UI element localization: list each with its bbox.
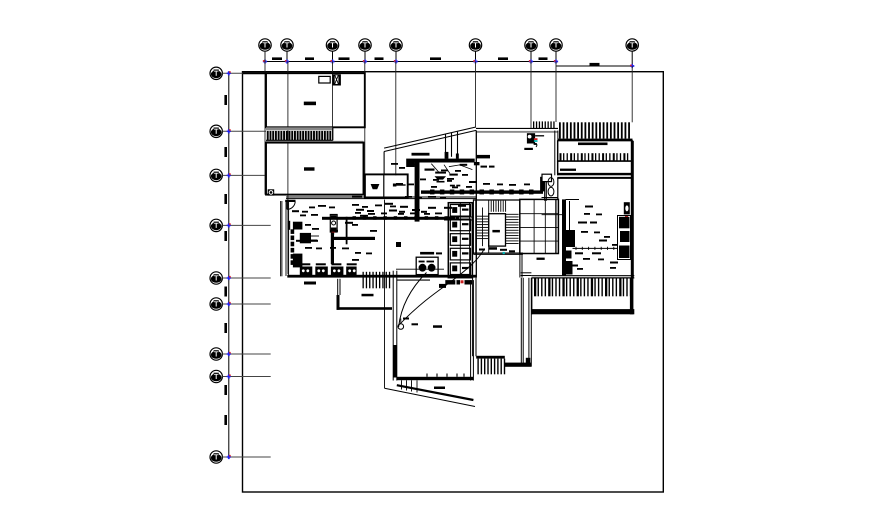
left grid tick B	[227, 129, 231, 133]
top grid bubble 7	[525, 39, 537, 62]
bc room west wall	[392, 271, 394, 381]
main duct riser stubs	[445, 152, 449, 159]
atrium roof diagonal inner	[384, 130, 476, 151]
top grid tick 9	[630, 64, 634, 68]
wedge outer diagonal	[385, 388, 476, 406]
porch walls	[337, 279, 339, 310]
hall equipment table 4	[346, 267, 356, 276]
room R1 lower teeth	[560, 153, 562, 161]
south louver end walls	[531, 278, 533, 314]
grid A leader thick	[243, 72, 266, 74]
louver strip top band	[266, 127, 333, 130]
courtyard west wall	[472, 278, 474, 357]
room R3 east wall	[631, 141, 634, 278]
atrium top edge double	[476, 127, 558, 129]
left grid leader A	[222, 72, 266, 74]
top grid bubble 4	[359, 39, 371, 62]
R3 labels	[578, 222, 587, 224]
courtyard corner post	[526, 358, 531, 363]
grid line v5	[395, 62, 397, 176]
left dimension line	[228, 73, 230, 458]
courtyard bottom bar	[505, 363, 532, 367]
duct leader ticks	[431, 164, 472, 174]
left grid leader C	[222, 174, 266, 176]
room A window box	[319, 76, 330, 83]
hall equipment table 2	[315, 267, 328, 276]
atrium small specks	[391, 163, 398, 165]
left grid leader G	[222, 353, 270, 355]
toilet fixture ovals	[548, 178, 554, 187]
left grid leader E	[222, 277, 270, 279]
porch comb teeth	[363, 272, 364, 289]
top grid bubble 1	[259, 39, 271, 62]
top grid bubble 8	[550, 39, 562, 62]
bc flex curve	[399, 249, 485, 326]
room B top gray band	[266, 141, 364, 143]
stair core	[472, 199, 474, 254]
atrium roof diagonal outer	[384, 127, 476, 148]
R3 small specks	[584, 213, 590, 215]
left grid bubble C	[210, 169, 222, 181]
south louver top lines	[532, 275, 635, 277]
bc door arc	[399, 273, 427, 328]
bc bottom ticks	[426, 374, 428, 377]
hall duct horizontal	[322, 217, 455, 220]
atrium columns	[445, 134, 447, 157]
tall louver teeth	[559, 122, 561, 138]
bc labels	[433, 325, 442, 328]
hall equip NW2	[300, 233, 311, 243]
grid line v8	[555, 62, 557, 123]
left grid leader D	[222, 224, 270, 226]
R3 top unit	[624, 202, 630, 214]
left grid tick I	[227, 455, 231, 459]
top dimension texts	[272, 57, 600, 65]
top grid tick 3	[330, 59, 334, 63]
east fan unit	[527, 133, 535, 143]
left grid bubble A	[210, 67, 222, 79]
main duct horizontal	[406, 159, 475, 163]
left grid bubble E	[210, 272, 222, 284]
left grid bubble D	[210, 219, 222, 231]
top dimension line	[265, 61, 556, 63]
top grid tick 2	[285, 59, 289, 63]
room R2 label dash	[560, 169, 576, 171]
left grid tick C	[227, 173, 231, 177]
atrium west wall	[383, 152, 385, 175]
left grid tick A	[227, 71, 231, 75]
duct sink symbol	[435, 176, 447, 179]
top grid bubble 3	[326, 39, 338, 62]
underskylight bottom wall	[521, 272, 532, 274]
east room west wall	[475, 130, 477, 277]
top grid tick 5	[394, 59, 398, 63]
underskylight room dash	[537, 258, 545, 260]
left grid leader I	[222, 456, 270, 458]
toilet counter line	[394, 184, 406, 186]
top grid tick 7	[529, 59, 533, 63]
room R2 walls	[558, 161, 633, 173]
short louver teeth	[533, 121, 534, 128]
duct labels atrium	[425, 169, 435, 171]
top grid tick 8	[554, 59, 558, 63]
east room top label	[524, 148, 533, 150]
courtyard stair teeth	[476, 356, 505, 359]
toilet bowl icon	[371, 184, 380, 189]
south louver teeth	[534, 278, 536, 296]
hall duct diffusers	[353, 216, 357, 220]
left grid leader H	[222, 376, 270, 378]
wedge inner diagonal	[397, 385, 474, 400]
grid line v1	[264, 51, 266, 194]
room R1 label bar	[578, 143, 608, 146]
toilet fixtures wall	[540, 177, 545, 192]
room R3 door line	[566, 199, 580, 201]
main duct vertical	[415, 162, 420, 221]
hall west wall thick	[288, 221, 291, 230]
corridor walls east	[520, 278, 522, 367]
grid line v4	[364, 62, 366, 198]
bc equipment bar	[439, 284, 446, 288]
top grid tick 4	[363, 59, 367, 63]
hall equip NW3	[293, 254, 303, 268]
hall west wall thin	[285, 200, 287, 276]
grid line v3	[332, 62, 334, 141]
wc stall column	[448, 203, 472, 278]
dotted duct run	[421, 190, 543, 193]
left dimension texts	[224, 95, 227, 425]
bc door symbol	[398, 324, 404, 330]
hall outer skin	[280, 201, 282, 276]
grid line v6	[475, 62, 477, 127]
hall equipment table 1	[300, 267, 313, 276]
left grid tick E	[227, 276, 231, 280]
room R1 walls	[558, 141, 633, 161]
hall wall hatch column	[291, 229, 295, 234]
grid line v9	[631, 66, 633, 122]
east room partition	[554, 131, 556, 176]
hall fan coil unit	[330, 215, 337, 233]
hall small specks	[309, 207, 315, 209]
left grid leader B	[222, 130, 266, 132]
left grid bubble H	[210, 370, 222, 382]
top grid bubble 2	[281, 39, 293, 62]
top grid bubble 5	[390, 39, 402, 62]
duct label SAD1	[412, 153, 430, 156]
room A walls	[266, 73, 365, 127]
top grid bubble 9	[626, 39, 638, 66]
top grid tick 1	[263, 59, 267, 63]
left grid bubble G	[210, 348, 222, 360]
grid line v2	[287, 62, 289, 275]
left grid tick D	[227, 223, 231, 227]
south louver bottom bar	[532, 309, 635, 314]
room B walls	[266, 143, 364, 195]
R3 tick line	[573, 247, 619, 249]
room R2 bottom bar	[557, 173, 633, 175]
left grid leader F	[222, 303, 270, 305]
room A fan box	[332, 74, 341, 85]
room R3 top wall	[557, 177, 631, 179]
R3 stacked units	[618, 216, 631, 260]
bc bottom wall	[397, 377, 474, 380]
toilet room walls	[365, 174, 408, 197]
hall duct branch	[334, 237, 375, 240]
left grid tick G	[227, 352, 231, 356]
room A label dash	[304, 102, 316, 106]
bc room top lintel	[397, 279, 430, 281]
left grid tick F	[227, 302, 231, 306]
hall bottom wall	[287, 275, 476, 278]
hall labels top	[292, 210, 299, 212]
porch label dash	[362, 294, 374, 297]
hall entry door	[287, 201, 295, 209]
top grid tick 6	[473, 59, 477, 63]
hall equipment table 3	[331, 267, 344, 276]
top grid bubble 6	[469, 39, 481, 62]
louver strip frame	[266, 139, 333, 141]
corridor line	[384, 200, 386, 389]
left grid bubble B	[210, 125, 222, 137]
left grid bubble F	[210, 298, 222, 310]
skylight grid	[520, 199, 559, 253]
R3 west wall bar	[562, 199, 566, 275]
grid line v7	[530, 62, 532, 130]
hall mid labels	[296, 240, 304, 242]
room R3 west wall	[544, 175, 546, 201]
room B label dash	[304, 167, 315, 170]
toilet room divider	[383, 174, 385, 197]
bc room east wall	[470, 280, 472, 380]
R3 AHU blobs	[563, 230, 575, 247]
sheet border	[243, 72, 664, 492]
tall louver bar	[558, 139, 633, 141]
hall duct continuation	[444, 216, 472, 218]
wedge cells	[401, 380, 403, 389]
left grid bubble I	[210, 451, 222, 463]
louver strip teeth	[267, 131, 331, 142]
pump unit	[416, 257, 438, 274]
R3 red mark	[625, 216, 628, 218]
hall top wall double	[286, 196, 476, 198]
left grid tick H	[227, 374, 231, 378]
hall equip NW1	[293, 222, 303, 230]
room B corner icon	[268, 189, 275, 195]
